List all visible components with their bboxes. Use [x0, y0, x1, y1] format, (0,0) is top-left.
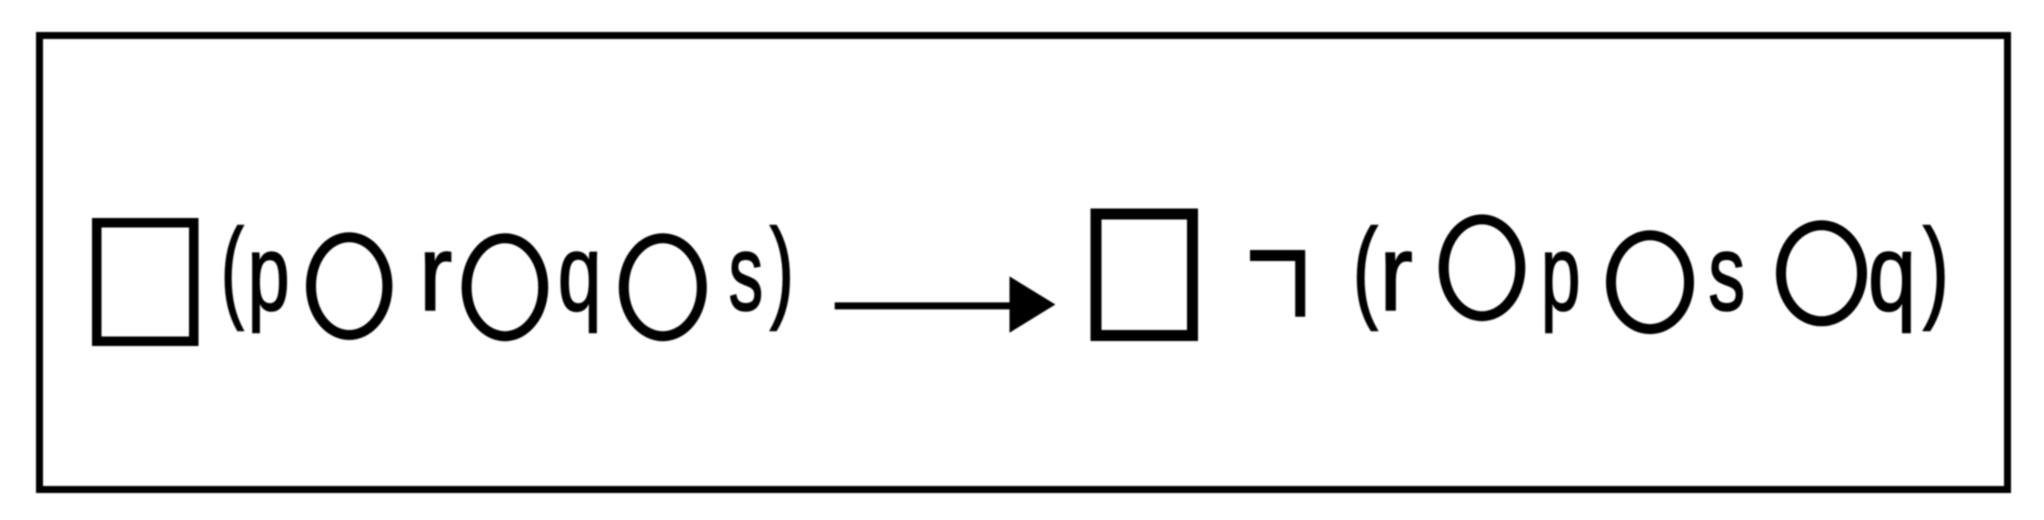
circle operator 5 — [1611, 235, 1689, 329]
svg-text:(: ( — [1353, 206, 1378, 331]
circle operator 1 — [311, 237, 387, 335]
box operator (left square) — [97, 223, 194, 342]
circle operator 4 — [1444, 219, 1521, 316]
svg-text:r: r — [419, 214, 452, 334]
svg-text:s: s — [1708, 212, 1745, 334]
circle operator 3 — [624, 238, 702, 336]
negation sign bar — [1250, 250, 1305, 261]
svg-text:p: p — [1541, 213, 1581, 333]
arrow head — [1010, 276, 1056, 332]
svg-text:q: q — [1868, 212, 1916, 333]
svg-text:): ) — [770, 206, 794, 332]
svg-text:q: q — [558, 213, 602, 334]
negation sign stem — [1295, 250, 1305, 317]
circle operator 2 — [467, 238, 544, 336]
svg-text:s: s — [729, 214, 764, 334]
svg-text:(: ( — [221, 206, 244, 331]
svg-text:r: r — [1379, 214, 1412, 334]
box operator (right square) — [1096, 214, 1193, 336]
svg-text:): ) — [1923, 206, 1949, 331]
svg-text:p: p — [248, 213, 290, 333]
circle operator 6 — [1781, 225, 1862, 321]
arrow shaft — [835, 302, 1012, 309]
